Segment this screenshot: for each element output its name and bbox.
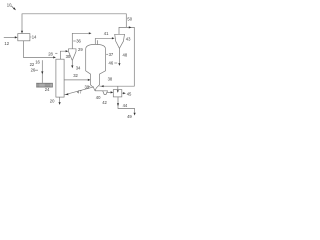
node dash 28 [55, 52, 57, 54]
svg-text:40: 40 [96, 95, 101, 100]
wire branch into box 45 [117, 86, 119, 93]
wire recycle line 50 [22, 14, 126, 31]
wire cyclone dipleg 46 [118, 49, 120, 66]
svg-text:16: 16 [35, 59, 40, 64]
svg-text:28: 28 [48, 51, 53, 56]
wire line 41 vessel overhead to cyclone [95, 37, 114, 39]
svg-text:44: 44 [123, 103, 128, 108]
svg-text:49: 49 [127, 114, 132, 119]
svg-text:30: 30 [66, 54, 71, 59]
svg-text:39: 39 [85, 85, 90, 90]
svg-text:45: 45 [127, 92, 132, 97]
column 30 [56, 59, 64, 97]
svg-text:24: 24 [45, 87, 50, 92]
node dash 46 [114, 62, 117, 64]
wire feed arrow 12 [4, 36, 18, 38]
wire gas line 48 cyclone overhead down right side [100, 27, 135, 86]
wire line 28 column overhead to funnel [60, 50, 68, 59]
wire line 40 vessel bottom to hopper [95, 90, 103, 92]
cyclone 43 [115, 34, 125, 48]
vessel 37 [86, 44, 106, 90]
node dash 36 [73, 40, 75, 42]
svg-text:12: 12 [4, 41, 9, 46]
svg-text:10: 10 [7, 2, 12, 7]
node label 14 [30, 36, 31, 38]
svg-text:46: 46 [109, 61, 114, 66]
node dash 26 [35, 69, 38, 71]
node dash 37 [106, 53, 108, 55]
svg-text:26: 26 [31, 68, 36, 73]
heater 24 [37, 83, 53, 87]
wire box 45 outlet right [122, 92, 126, 94]
svg-text:50: 50 [127, 16, 132, 21]
svg-text:22: 22 [30, 62, 35, 67]
svg-text:20: 20 [50, 98, 55, 103]
svg-text:41: 41 [104, 31, 109, 36]
wire line 36 funnel overhead to vessel [72, 32, 91, 49]
mixer box 12 [18, 34, 30, 41]
svg-text:48: 48 [123, 53, 128, 58]
wire arrow on line 48 into skirt [101, 85, 104, 87]
node dash 38 left [88, 86, 90, 88]
svg-text:34: 34 [76, 65, 81, 70]
node 10 leader arrow [11, 6, 16, 10]
wire line 22/26 into heater [41, 60, 43, 83]
wire diagonal 47 vessel to column [64, 87, 94, 96]
funnel 29 [69, 49, 77, 61]
wire arrowhead into box 12 top [21, 31, 23, 34]
hopper 42 [103, 91, 108, 95]
svg-text:14: 14 [32, 35, 37, 40]
wire vessel top nozzle [94, 38, 96, 44]
svg-text:32: 32 [73, 73, 78, 78]
svg-text:38: 38 [108, 76, 113, 81]
wire column bottoms 20 [59, 97, 61, 105]
svg-text:36: 36 [76, 39, 81, 44]
svg-text:37: 37 [109, 52, 114, 57]
wire arrow on line 48 top [129, 26, 132, 28]
wire dipleg 34 [71, 61, 73, 69]
wire arrow 49 [134, 113, 136, 116]
wire line 44 49 bottom right [118, 97, 135, 113]
svg-text:42: 42 [102, 100, 107, 105]
svg-text:43: 43 [126, 36, 131, 41]
svg-text:47: 47 [77, 89, 82, 94]
wire arrow 44 [117, 103, 119, 106]
box 45 [113, 90, 122, 97]
wire line 16 box to column [23, 41, 56, 59]
wire side draw 32 column to vessel skirt [64, 79, 90, 81]
svg-text:29: 29 [78, 47, 83, 52]
wire hopper to box 45 [107, 91, 113, 93]
